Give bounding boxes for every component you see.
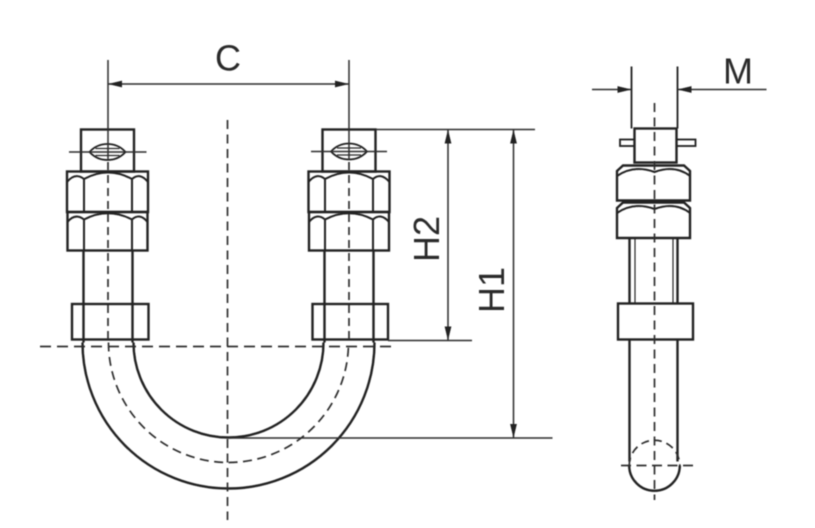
svg-text:H1: H1 <box>471 267 512 313</box>
svg-text:H2: H2 <box>406 216 447 262</box>
svg-text:C: C <box>215 38 241 79</box>
svg-text:M: M <box>723 51 753 92</box>
